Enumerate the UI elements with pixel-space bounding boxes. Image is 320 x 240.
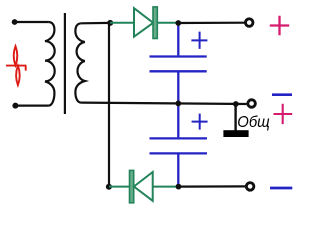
terminal: common output [248, 100, 256, 108]
capacitor C2 top lead [177, 104, 179, 137]
wire: middle rail from secondary bottom to common terminal [81, 103, 246, 104]
diode VD2 triangle [134, 172, 153, 201]
wire: top rail to + terminal [178, 22, 246, 24]
wire: primary top lead [14, 21, 48, 23]
label: C2 polarity + (blue) [192, 114, 208, 130]
diode VD1 triangle [134, 8, 153, 37]
terminal: - output [246, 183, 254, 191]
svg-text:Общ: Общ [237, 114, 269, 131]
node: junction dot bottom left [106, 184, 112, 190]
diode VD1 anode wire (green) [110, 22, 134, 24]
wire: primary bottom lead [16, 104, 48, 106]
AC source sine symbol (red) [6, 46, 26, 85]
capacitor C2 plates [150, 138, 208, 153]
node: junction dot bottom capacitor [176, 184, 182, 190]
ground symbol bar [223, 130, 248, 137]
capacitor C1 bottom lead [177, 72, 179, 102]
wire: bottom rail to - terminal [179, 185, 247, 187]
ground stub wire [234, 104, 236, 131]
diode VD1 cathode bar [153, 7, 157, 39]
diode VD2 cathode wire (green) [109, 186, 130, 188]
node: primary top terminal dot [12, 19, 18, 25]
node: primary bottom terminal dot [12, 103, 18, 109]
node: junction dot middle capacitors [175, 101, 181, 107]
transformer T1 primary winding [45, 22, 55, 106]
capacitor C2 bottom lead [177, 155, 179, 186]
capacitor C1 plates [150, 57, 207, 72]
diode VD2 cathode bar [130, 170, 134, 202]
transformer T1 secondary winding [75, 23, 84, 102]
wire: vertical from top junction down to bottom rail [108, 23, 110, 187]
label: minus above common (blue) [272, 93, 292, 96]
label: minus bottom right (blue) [270, 187, 292, 190]
label: C1 polarity + (blue) [191, 32, 207, 49]
node: junction dot top capacitor [175, 20, 181, 26]
terminal: + output [245, 19, 253, 27]
label: + plus below common (magenta) [274, 104, 293, 124]
diode VD2 anode wire (green) [153, 186, 179, 188]
node: junction dot ground stub [233, 101, 239, 107]
capacitor C1 top lead [177, 24, 179, 55]
diode VD1 cathode wire (green) [157, 22, 178, 24]
transformer T1 core [64, 13, 66, 114]
label: + plus top right (magenta) [270, 16, 289, 35]
node: junction dot secondary top [107, 20, 113, 26]
wire: secondary top lead to junction [81, 22, 110, 25]
